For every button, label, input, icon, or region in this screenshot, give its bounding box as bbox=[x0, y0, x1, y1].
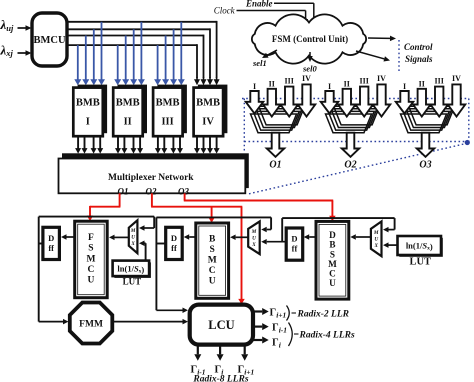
svg-text:I: I bbox=[253, 82, 256, 91]
svg-text:O2: O2 bbox=[344, 160, 356, 171]
svg-text:Multiplexer Network: Multiplexer Network bbox=[108, 173, 194, 183]
svg-text:M: M bbox=[86, 254, 95, 264]
svg-text:FMM: FMM bbox=[79, 320, 103, 330]
svg-text:D: D bbox=[48, 233, 54, 243]
svg-text:ff: ff bbox=[292, 244, 298, 254]
svg-text:C: C bbox=[329, 268, 336, 278]
svg-text:Radix-8 LLRs: Radix-8 LLRs bbox=[192, 375, 248, 382]
svg-text:LUT: LUT bbox=[123, 277, 142, 287]
svg-text:X: X bbox=[130, 241, 135, 247]
svg-text:II: II bbox=[344, 79, 350, 88]
svg-text:Enable: Enable bbox=[245, 0, 273, 9]
svg-text:U: U bbox=[131, 235, 135, 241]
svg-text:S: S bbox=[210, 245, 215, 255]
svg-text:IV: IV bbox=[377, 74, 386, 83]
svg-text:M: M bbox=[251, 229, 257, 235]
svg-text:BMB: BMB bbox=[156, 98, 180, 109]
svg-text:U: U bbox=[374, 237, 378, 243]
svg-text:Control: Control bbox=[404, 42, 433, 52]
svg-text:X: X bbox=[251, 242, 256, 248]
svg-text:O1: O1 bbox=[269, 160, 281, 171]
svg-text:I: I bbox=[403, 82, 406, 91]
svg-text:III: III bbox=[435, 77, 444, 86]
svg-text:Radix-4 LLRs: Radix-4 LLRs bbox=[299, 331, 355, 341]
svg-text:II: II bbox=[269, 79, 275, 88]
svg-text:sel0: sel0 bbox=[302, 64, 317, 74]
svg-text:U: U bbox=[329, 278, 336, 288]
svg-text:IV: IV bbox=[302, 74, 311, 83]
svg-text:D: D bbox=[171, 233, 177, 243]
svg-text:O3: O3 bbox=[419, 160, 431, 171]
svg-text:FSM (Control Unit): FSM (Control Unit) bbox=[272, 34, 348, 44]
svg-text:sel1: sel1 bbox=[252, 58, 267, 68]
svg-text:BMB: BMB bbox=[76, 98, 100, 109]
svg-text:S: S bbox=[330, 249, 335, 259]
svg-text:IV: IV bbox=[202, 117, 214, 128]
svg-text:LCU: LCU bbox=[208, 318, 234, 332]
svg-text:II: II bbox=[124, 117, 132, 128]
svg-text:C: C bbox=[88, 265, 95, 275]
svg-text:U: U bbox=[209, 277, 216, 287]
svg-text:D: D bbox=[329, 230, 336, 240]
svg-text:U: U bbox=[252, 236, 256, 242]
svg-text:III: III bbox=[285, 77, 294, 86]
svg-text:III: III bbox=[360, 77, 369, 86]
svg-text:B: B bbox=[209, 234, 216, 244]
svg-text:U: U bbox=[88, 275, 95, 285]
svg-text:X: X bbox=[373, 243, 378, 249]
svg-text:D: D bbox=[291, 234, 297, 244]
svg-text:M: M bbox=[208, 255, 217, 265]
svg-text:III: III bbox=[161, 117, 173, 128]
svg-text:BMCU: BMCU bbox=[33, 35, 65, 46]
svg-text:B: B bbox=[329, 240, 335, 250]
svg-text:Clock: Clock bbox=[214, 6, 236, 16]
svg-text:F: F bbox=[88, 233, 94, 243]
svg-text:C: C bbox=[209, 266, 216, 276]
svg-text:M: M bbox=[373, 230, 379, 236]
svg-text:I: I bbox=[328, 82, 331, 91]
svg-text:BMB: BMB bbox=[116, 98, 140, 109]
svg-text:M: M bbox=[328, 259, 337, 269]
svg-text:II: II bbox=[419, 79, 425, 88]
svg-text:Signals: Signals bbox=[405, 54, 433, 64]
svg-text:I: I bbox=[86, 117, 90, 128]
svg-text:IV: IV bbox=[452, 74, 461, 83]
svg-text:ff: ff bbox=[171, 243, 177, 253]
svg-text:Radix-2 LLR: Radix-2 LLR bbox=[297, 310, 349, 320]
svg-text:S: S bbox=[88, 244, 93, 254]
svg-text:BMB: BMB bbox=[196, 98, 220, 109]
svg-text:M: M bbox=[130, 228, 136, 234]
svg-text:LUT: LUT bbox=[409, 257, 431, 268]
svg-text:ff: ff bbox=[48, 243, 54, 253]
